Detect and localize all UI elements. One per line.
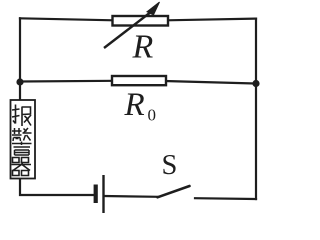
wire top-left horizontal <box>20 18 113 20</box>
wire battery to switch <box>104 195 158 198</box>
node junction right <box>252 80 259 87</box>
wire switch to bottom-right corner <box>195 197 256 200</box>
wire left vertical (top corner to middle junction) <box>19 18 21 82</box>
wire alarm box bottom to battery <box>20 179 94 196</box>
resistor R0 body <box>112 76 166 85</box>
svg-text:S: S <box>162 150 178 181</box>
wire middle branch right <box>165 81 256 84</box>
character 警 <box>12 128 32 155</box>
battery negative plate (short thick) <box>94 185 98 204</box>
character 器 <box>12 158 32 176</box>
node junction left <box>16 78 23 85</box>
svg-text:R: R <box>124 87 145 123</box>
wire top-right horizontal <box>167 19 256 21</box>
rheostat R body <box>113 16 169 26</box>
alarm device box (报警器) <box>11 100 36 179</box>
battery positive plate (long thin) <box>102 175 104 213</box>
wire junction to alarm box <box>19 82 21 100</box>
wire middle branch left <box>20 80 113 83</box>
character 报 <box>12 105 31 127</box>
svg-text:0: 0 <box>148 106 157 125</box>
rheostat R arrow <box>104 2 160 48</box>
switch S lever <box>158 186 190 197</box>
svg-text:R: R <box>132 28 154 65</box>
wire right vertical <box>255 19 257 199</box>
